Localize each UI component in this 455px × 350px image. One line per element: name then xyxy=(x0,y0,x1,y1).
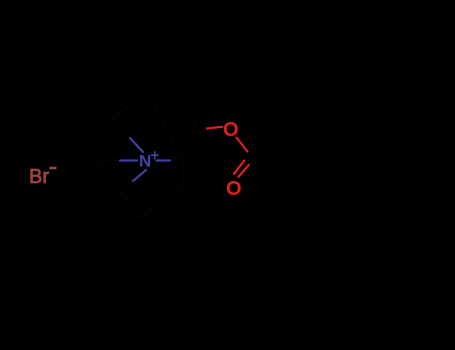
svg-text:O: O xyxy=(223,119,239,141)
svg-text:Br: Br xyxy=(29,166,49,188)
svg-text:N: N xyxy=(139,152,151,171)
svg-text:O: O xyxy=(226,178,242,200)
